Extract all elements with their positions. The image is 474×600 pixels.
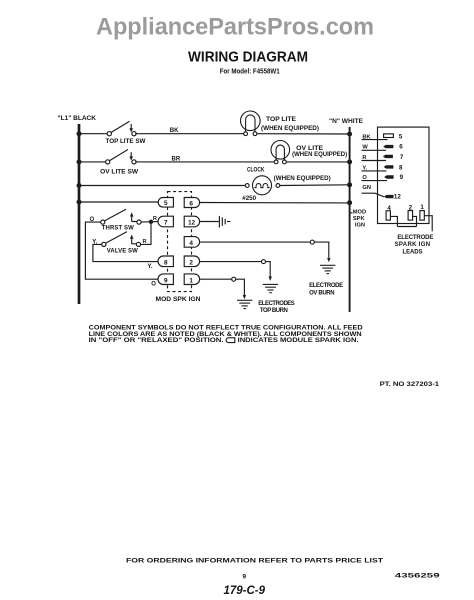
svg-text:6: 6 [189,200,193,207]
junction L1-terminal5 line [77,200,82,205]
arrowhead down t2 [269,277,272,281]
junction L1-clock line [77,183,82,188]
svg-text:Y.: Y. [92,239,97,245]
wire clock to N bus [280,184,350,187]
svg-text:7: 7 [400,154,404,161]
switch THRST SW [101,209,141,224]
svg-text:7: 7 [164,220,168,227]
svg-text:MOD: MOD [353,210,366,216]
pin 9 O row [362,174,404,181]
svg-text:W: W [362,144,368,150]
ground ELECTRODE OV BURN [320,265,335,273]
terminal 7 [158,216,173,227]
motor CLOCK [245,176,279,195]
svg-text:9: 9 [400,174,404,181]
svg-text:9: 9 [164,277,168,284]
module MOD SPK IGN dashed outline [168,192,192,292]
svg-text:OV BURN: OV BURN [309,290,335,296]
ground top burn 2 [263,284,278,292]
svg-text:FOR ORDERING INFORMATION REFER: FOR ORDERING INFORMATION REFER TO PARTS … [126,558,383,565]
svg-text:VALVE SW: VALVE SW [107,248,138,254]
wire t2 corner down [266,262,271,277]
terminal 9 [158,274,173,285]
arrowhead down t1 [243,295,246,299]
svg-text:THRST SW: THRST SW [102,226,134,232]
svg-text:6: 6 [399,143,403,150]
svg-text:R: R [143,239,147,245]
wire bus to terminal 5 [79,201,159,203]
svg-text:(WHEN EQUIPPED): (WHEN EQUIPPED) [261,126,319,132]
svg-text:179-C-9: 179-C-9 [224,585,266,597]
wire N white bus [349,127,351,312]
ground top burn 1 [237,300,252,308]
switch TOP LITE SW [107,121,136,135]
svg-text:TOP BURN: TOP BURN [260,308,288,314]
label MOD SPK IGN stacked at N bus [351,212,353,214]
pin 1 lead [420,204,432,231]
junction N-clock line [347,182,352,187]
wire terminal 2 to top burn electrode [200,261,262,263]
wire bridge pin4-pin2 leads [397,226,416,228]
wire thrst sw to R junction to terminal 7 [141,221,159,224]
wire ov lamp to N bus [286,161,349,163]
svg-text:"N" WHITE: "N" WHITE [329,118,364,125]
svg-text:O: O [90,217,95,223]
svg-text:LEADS: LEADS [403,250,423,256]
svg-text:R: R [153,216,157,222]
svg-text:2: 2 [189,259,193,266]
pin 7 R row [362,154,404,161]
svg-text:ELECTRODE: ELECTRODE [397,235,433,241]
svg-text:4: 4 [189,240,193,247]
wire O: thrst sw to terminal 9 [85,222,158,279]
terminal 4 [184,237,199,248]
svg-text:4356259: 4356259 [395,573,440,580]
wire top lamp to N bus [257,133,350,135]
junction R [149,220,153,224]
electrode spark gap symbol at 12 [219,216,230,228]
pin 8 Y row [362,164,404,171]
svg-text:8: 8 [164,259,168,266]
pin 6 W row [362,143,404,150]
terminal 6 [184,197,199,207]
svg-text:8: 8 [399,164,403,171]
arrowhead down t4 [327,258,330,262]
svg-text:BR: BR [172,156,181,162]
svg-text:9: 9 [243,574,247,581]
junction N-top lite line [347,132,352,137]
note terminal symbol [226,338,235,343]
switch VALVE SW [102,232,141,247]
svg-text:IGN: IGN [355,223,365,229]
lamp OV LITE [271,141,290,164]
svg-text:5: 5 [399,134,403,141]
wire bus to top lite switch [79,133,107,135]
svg-text:ELECTRODES: ELECTRODES [258,301,295,307]
wire switch to top lamp, BK [135,133,243,135]
junction N-250 line [347,200,352,205]
terminal 8 [158,256,173,267]
pin 5 BK row [362,134,403,141]
junction N-ov lite line [347,159,352,164]
wire t4 corner down [314,242,329,258]
svg-text:12: 12 [394,194,401,201]
svg-text:BK: BK [170,128,179,134]
connector circle on t4 wire [310,240,314,244]
wire terminal 1 to top burn electrode [200,278,232,280]
wire L1 black bus [78,124,81,304]
wire terminal 6 to N bus, #250 [199,202,350,204]
connector MOD SPK IGN block outline [378,127,430,223]
svg-text:TOP LITE SW: TOP LITE SW [106,139,146,145]
wire t1 corner down [236,279,245,295]
svg-text:OV LITE SW: OV LITE SW [100,169,138,175]
wire bus to ov lite switch [79,161,106,163]
wire bus to clock [79,185,245,187]
pin 4 lead [386,205,397,227]
svg-text:OV LITE: OV LITE [296,146,323,152]
svg-text:AppliancePartsPros.com: AppliancePartsPros.com [96,14,374,41]
pin 2 lead [408,205,416,227]
svg-text:INDICATES MODULE SPARK IGN.: INDICATES MODULE SPARK IGN. [238,337,359,344]
svg-text:GN: GN [362,185,371,191]
junction L1-top lite line [77,131,82,136]
svg-text:1: 1 [189,277,193,284]
wire Y: valve sw to terminal 8 [93,244,159,261]
svg-text:CLOCK: CLOCK [247,168,265,174]
connector circle on t2 wire [262,260,266,264]
terminal 1 [184,274,199,285]
wire R: valve sw up to junction [141,223,152,244]
svg-text:(WHEN EQUIPPED): (WHEN EQUIPPED) [292,152,347,158]
svg-text:SPARK IGN: SPARK IGN [395,242,431,248]
svg-text:12: 12 [188,220,195,227]
wire terminal 12 to spark electrode [200,221,219,223]
svg-text:PT. NO 327203-1: PT. NO 327203-1 [380,381,440,388]
svg-text:#250: #250 [242,195,256,202]
junction L1-ov lite line [77,159,82,164]
wire switch to ov lamp, BR [135,161,274,163]
pin 12 GN row [362,185,402,201]
svg-text:"L1" BLACK: "L1" BLACK [58,115,97,122]
svg-text:SPK: SPK [353,216,366,222]
svg-text:WIRING DIAGRAM: WIRING DIAGRAM [188,49,308,66]
terminal 5 [158,198,173,208]
svg-text:IN "OFF" OR "RELAXED" POSITION: IN "OFF" OR "RELAXED" POSITION. [89,337,224,344]
svg-text:Y.: Y. [148,264,153,270]
svg-text:(WHEN EQUIPPED): (WHEN EQUIPPED) [274,176,331,182]
lamp TOP LITE [241,111,261,136]
svg-text:TOP LITE: TOP LITE [266,117,296,123]
terminal 12 [184,216,199,227]
terminal 2 [184,256,199,267]
connector circle on t1 wire [232,277,236,281]
wire terminal 4 to ov burn electrode [200,241,311,243]
svg-text:O: O [151,282,156,288]
svg-text:5: 5 [164,200,168,207]
svg-text:For Model: F4558W1: For Model: F4558W1 [220,66,280,75]
svg-text:ELECTRODE: ELECTRODE [309,283,343,289]
svg-text:MOD SPK IGN: MOD SPK IGN [156,297,201,303]
switch OV LITE SW [106,150,136,164]
